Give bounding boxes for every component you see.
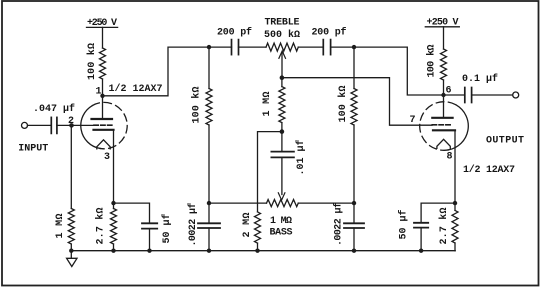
wire cathode lead U1 bbox=[113, 130, 115, 203]
potentiometer 500k treble bbox=[266, 43, 298, 51]
svg-text:BASS: BASS bbox=[270, 228, 293, 239]
wire bbox=[102, 27, 104, 48]
svg-text:+250 V: +250 V bbox=[87, 18, 117, 29]
svg-text:100 kΩ: 100 kΩ bbox=[191, 87, 203, 124]
node B bbox=[352, 45, 356, 49]
capacitor 200pf right bbox=[322, 40, 324, 55]
svg-text:2 MΩ: 2 MΩ bbox=[242, 213, 253, 238]
node bbox=[69, 249, 73, 253]
svg-text:1: 1 bbox=[96, 87, 102, 98]
svg-text:3: 3 bbox=[104, 152, 110, 163]
node C bbox=[280, 129, 285, 134]
node cathode1 bbox=[111, 201, 115, 205]
pot treble wiper arrow bbox=[281, 53, 283, 78]
svg-text:2.7 kΩ: 2.7 kΩ bbox=[95, 208, 107, 245]
wire bbox=[331, 46, 354, 48]
wire to bypass cap bbox=[114, 203, 150, 223]
svg-text:2: 2 bbox=[68, 116, 74, 127]
capacitor .0022uf right bbox=[353, 203, 355, 223]
capacitor 0.1uf plates bbox=[464, 88, 466, 103]
wire bbox=[70, 125, 72, 208]
svg-text:50 µf: 50 µf bbox=[161, 214, 173, 244]
tube U2 heater bbox=[437, 139, 450, 148]
wire node A to cap bbox=[209, 46, 232, 48]
tube U1 plate bar bbox=[92, 118, 113, 120]
svg-text:1 MΩ: 1 MΩ bbox=[55, 214, 66, 239]
resistor R 100k left plate bbox=[100, 48, 106, 79]
potentiometer 1M bass bbox=[267, 200, 299, 207]
wire to output cap bbox=[444, 94, 465, 96]
svg-text:500 kΩ: 500 kΩ bbox=[264, 29, 300, 41]
resistor R 2.7k right bbox=[454, 203, 456, 210]
svg-text:2.7 kΩ: 2.7 kΩ bbox=[438, 208, 450, 245]
node pin6 bbox=[441, 93, 445, 97]
node bbox=[207, 201, 211, 205]
svg-text:.0022 µf: .0022 µf bbox=[333, 202, 345, 246]
svg-text:.0022 µf: .0022 µf bbox=[187, 203, 199, 247]
node cathode2 bbox=[453, 201, 457, 205]
svg-text:0.1 µf: 0.1 µf bbox=[462, 73, 498, 85]
svg-text:8: 8 bbox=[447, 152, 453, 163]
bottom ground rail bbox=[71, 250, 455, 252]
tube U1 envelope dashed arc bbox=[92, 102, 127, 148]
capacitor .0022uf left bbox=[208, 203, 210, 223]
wire cathode lead U2 bbox=[454, 130, 456, 203]
svg-text:.01 µf: .01 µf bbox=[295, 140, 307, 176]
node wiper junction bbox=[280, 75, 285, 80]
tube U2 envelope dashed arc bbox=[420, 102, 456, 151]
wire bbox=[208, 125, 210, 203]
resistor R 1M grid bbox=[68, 209, 74, 245]
resistor R 1M mid bbox=[281, 78, 283, 87]
resistor R 100k tone left bbox=[206, 89, 212, 126]
svg-text:100 kΩ: 100 kΩ bbox=[86, 43, 98, 80]
wire node B to plate 2 bbox=[354, 47, 444, 95]
node A bbox=[207, 45, 211, 49]
wire bbox=[208, 47, 210, 88]
bass wiper arrow bbox=[278, 193, 285, 200]
capacitor 50uf left bbox=[142, 222, 157, 224]
tube U2 cathode bar bbox=[433, 129, 455, 131]
svg-text:TREBLE: TREBLE bbox=[265, 18, 300, 29]
svg-text:100 kΩ: 100 kΩ bbox=[337, 86, 349, 123]
wire bbox=[353, 125, 355, 203]
capacitor 200pf left bbox=[231, 40, 233, 55]
wire to bypass cap right bbox=[421, 203, 455, 223]
input terminal bbox=[22, 122, 28, 128]
capacitor .01uf bbox=[281, 132, 283, 152]
tube U2 plate bar bbox=[432, 117, 452, 119]
wire bass rail left bbox=[209, 202, 267, 204]
wire bbox=[28, 124, 52, 126]
tube U1 grid dashes bbox=[94, 124, 114, 126]
wire plate lead U2 bbox=[443, 95, 445, 117]
wire bbox=[353, 47, 355, 88]
node grid1 bbox=[69, 123, 74, 128]
supply V+ left terminal bar bbox=[87, 26, 118, 28]
svg-text:1/2 12AX7: 1/2 12AX7 bbox=[109, 83, 163, 95]
capacitor 50uf right bbox=[414, 222, 428, 224]
svg-text:6: 6 bbox=[446, 86, 452, 97]
wire bbox=[298, 46, 323, 48]
node bbox=[352, 201, 356, 205]
tube U1 heater bbox=[97, 140, 110, 149]
wire wiper to grid2 bbox=[282, 78, 432, 126]
wire bbox=[472, 94, 513, 96]
svg-text:200 pf: 200 pf bbox=[217, 27, 252, 39]
svg-text:50 µf: 50 µf bbox=[398, 210, 410, 240]
tube U2 grid dashes bbox=[432, 124, 452, 126]
capacitor .047uf plates bbox=[50, 117, 52, 133]
svg-text:1/2 12AX7: 1/2 12AX7 bbox=[463, 164, 515, 176]
resistor R 100k right plate bbox=[441, 49, 447, 80]
svg-text:.047 µf: .047 µf bbox=[33, 103, 75, 115]
svg-text:1 MΩ: 1 MΩ bbox=[262, 92, 273, 117]
svg-text:100 kΩ: 100 kΩ bbox=[426, 45, 438, 78]
svg-text:OUTPUT: OUTPUT bbox=[486, 136, 524, 147]
supply V+ right terminal bar bbox=[425, 26, 459, 28]
wire branch to 2M bbox=[258, 132, 282, 212]
wire bbox=[239, 46, 267, 48]
svg-text:INPUT: INPUT bbox=[18, 144, 48, 155]
resistor R 2M bbox=[255, 212, 261, 243]
tube U2 envelope solid arc bbox=[448, 105, 468, 150]
svg-text:7: 7 bbox=[410, 115, 416, 126]
resistor R 100k tone right bbox=[351, 89, 357, 126]
resistor R 2.7k left bbox=[113, 203, 115, 208]
output terminal bbox=[513, 92, 519, 98]
wire bbox=[102, 79, 104, 96]
svg-text:200 pf: 200 pf bbox=[312, 27, 347, 39]
ground symbol bbox=[70, 251, 72, 259]
wire bbox=[70, 244, 72, 251]
tube U1 cathode bar bbox=[94, 129, 114, 131]
node pin1 bbox=[100, 94, 104, 98]
svg-text:1 MΩ: 1 MΩ bbox=[270, 216, 292, 227]
wire plate to tone stack bbox=[103, 47, 210, 96]
svg-text:+250 V: +250 V bbox=[427, 18, 459, 29]
tube U1 envelope solid arc bbox=[81, 106, 100, 149]
wire bbox=[57, 124, 94, 126]
wire bass rail right bbox=[298, 202, 354, 204]
wire plate lead bbox=[102, 96, 104, 118]
